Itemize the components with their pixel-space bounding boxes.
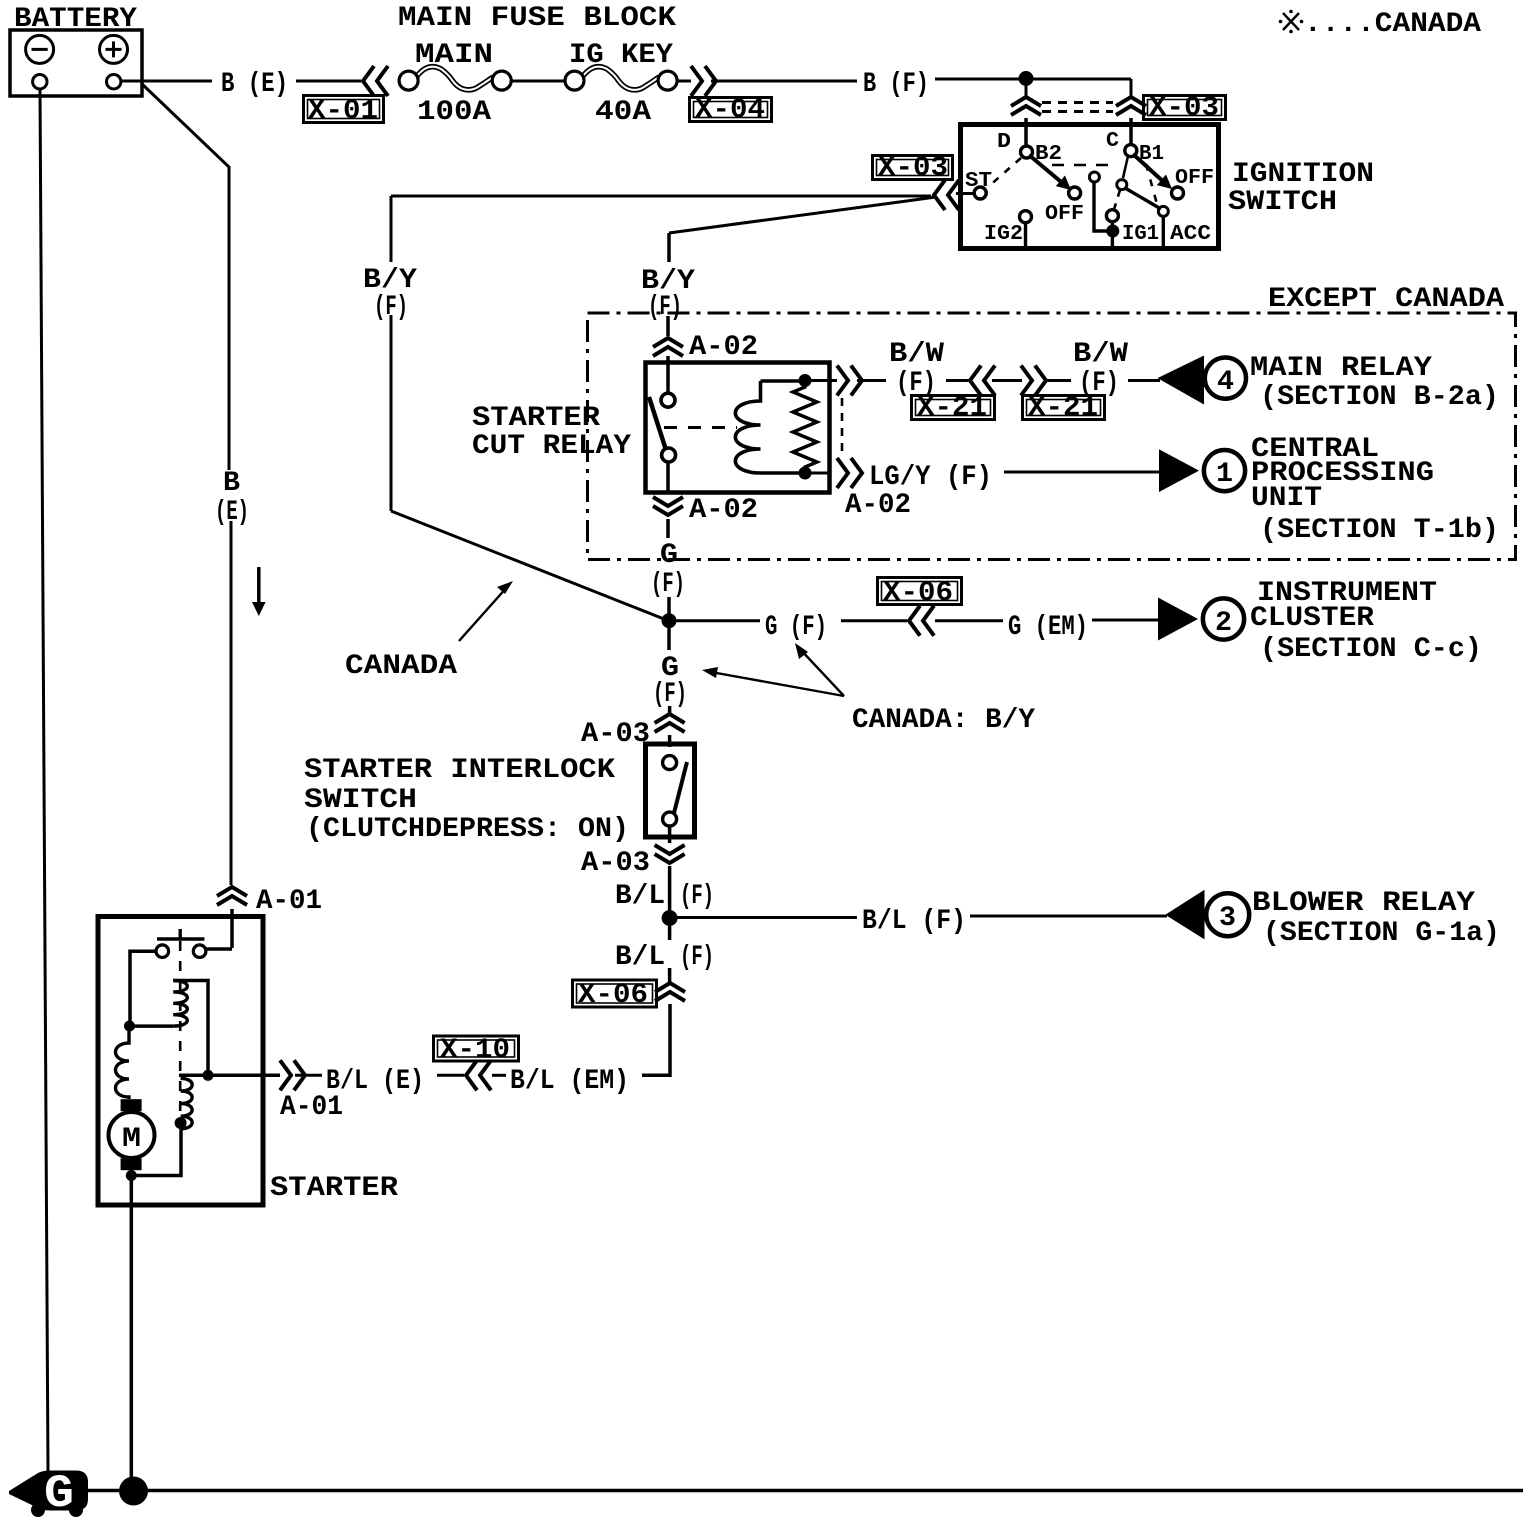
- wire left contact to field node: [130, 951, 156, 1021]
- starter solenoid contact right: [193, 945, 206, 958]
- starter plunger: [157, 929, 204, 939]
- label STARTER CUT RELAY: [472, 403, 631, 462]
- interlock switch blade: [674, 762, 687, 813]
- svg-text:IG2: IG2: [984, 223, 1023, 246]
- svg-text:A-03: A-03: [581, 719, 650, 750]
- starter solenoid contact left: [156, 945, 169, 958]
- ignition contact OFF (B1): [1172, 187, 1184, 199]
- svg-text:(F): (F): [680, 942, 714, 973]
- svg-text:B/W: B/W: [1073, 339, 1128, 370]
- svg-text:B/L (F): B/L (F): [862, 906, 966, 937]
- battery: [10, 30, 142, 96]
- ignition blade to ACC contact: [1125, 188, 1161, 209]
- svg-text:(F): (F): [680, 881, 714, 912]
- junction node IG1: [1106, 225, 1119, 238]
- svg-text:A-03: A-03: [581, 848, 650, 879]
- connector chevron X-03 on ST wire: [934, 180, 959, 210]
- wire hold-in coil top lead: [173, 981, 208, 1072]
- label B/L (F) below junction: [615, 942, 714, 973]
- junction node pull-in bottom: [175, 1117, 187, 1129]
- ignition pin IG1: [1106, 210, 1118, 222]
- arrow to instrument cluster: [1158, 598, 1198, 641]
- connector chevron X-01: [363, 66, 388, 96]
- wire relay B/W output: [811, 379, 886, 382]
- svg-text:EXCEPT CANADA: EXCEPT CANADA: [1268, 284, 1504, 315]
- arrow to main relay: [1158, 356, 1205, 405]
- arrow to blower relay: [1165, 890, 1204, 940]
- wire relay bottom to G: [668, 462, 669, 614]
- wire B/W between connectors: [946, 379, 1071, 382]
- junction node B/L: [662, 910, 678, 926]
- svg-text:MAIN FUSE BLOCK: MAIN FUSE BLOCK: [398, 3, 676, 34]
- bottom ground bus wire: [88, 1489, 1523, 1493]
- svg-text:(F): (F): [651, 569, 685, 600]
- svg-text:X-21: X-21: [917, 393, 987, 424]
- svg-text:(F): (F): [1079, 368, 1119, 399]
- svg-text:B: B: [223, 468, 240, 499]
- junction node motor bottom: [126, 1170, 137, 1181]
- svg-text:A-02: A-02: [845, 490, 911, 521]
- connector chevrons A-02 bottom: [653, 497, 683, 515]
- motor brush top: [121, 1099, 142, 1111]
- svg-text:UNIT: UNIT: [1251, 483, 1322, 514]
- ignition switch box: [961, 125, 1219, 249]
- wire hold-in coil bottom to node: [130, 1024, 173, 1028]
- svg-text:OFF: OFF: [1045, 203, 1084, 226]
- wire ST diagonal to B/Y right: [669, 197, 936, 233]
- dashed position line B1 to ACC: [1146, 164, 1157, 204]
- interlock contact top: [663, 756, 677, 770]
- svg-text:100A: 100A: [417, 97, 491, 128]
- svg-text:B/L (EM): B/L (EM): [510, 1066, 629, 1097]
- wire B/Y left vertical: [390, 196, 393, 511]
- svg-text:(E): (E): [215, 497, 249, 528]
- dashed position line B2 to ST: [988, 158, 1021, 187]
- label CANADA with arrow: [345, 581, 513, 682]
- svg-text:CANADA: CANADA: [345, 651, 457, 682]
- label B/W second: [1073, 339, 1128, 399]
- wire between fuses: [511, 80, 565, 83]
- svg-text:CUT RELAY: CUT RELAY: [472, 431, 631, 462]
- connector chevron X-06 on G wire: [909, 606, 934, 636]
- svg-text:A-01: A-01: [280, 1092, 343, 1123]
- connector chevron X-21 female: [970, 366, 995, 396]
- svg-text:G (F): G (F): [765, 612, 827, 643]
- svg-text:X-06: X-06: [883, 578, 953, 609]
- connector chevrons X-03 on B1 branch: [1116, 97, 1146, 115]
- junction node relay bottom: [799, 467, 812, 480]
- wire LG/Y to CPU: [1004, 471, 1160, 474]
- wire motor node to pull-in coil: [131, 1129, 181, 1176]
- ignition pin ST: [974, 187, 986, 199]
- relay contact bottom: [662, 448, 676, 462]
- dashed relay linkage: [664, 426, 737, 429]
- svg-text:CLUSTER: CLUSTER: [1250, 603, 1374, 634]
- junction node B(F): [1019, 71, 1034, 86]
- svg-text:CANADA: B/Y: CANADA: B/Y: [852, 705, 1035, 736]
- svg-text:(F): (F): [653, 679, 687, 710]
- svg-text:B (E): B (E): [221, 69, 288, 100]
- starter field coil: [116, 1031, 130, 1099]
- wire junction to interlock switch: [667, 627, 671, 747]
- label STARTER INTERLOCK SWITCH: [304, 755, 629, 845]
- relay coil top lead: [761, 379, 806, 383]
- connector chevrons X-06 bottom: [655, 983, 685, 1001]
- wire B/W to main relay: [1128, 379, 1160, 382]
- wire IG2 pin to box edge: [1024, 223, 1027, 246]
- svg-text:LG/Y (F): LG/Y (F): [869, 462, 992, 493]
- svg-text:SWITCH: SWITCH: [304, 785, 417, 816]
- label B/W first: [889, 339, 944, 399]
- svg-text:(CLUTCHDEPRESS: ON): (CLUTCHDEPRESS: ON): [306, 814, 629, 845]
- svg-text:MAIN RELAY: MAIN RELAY: [1250, 353, 1432, 384]
- svg-text:G (EM): G (EM): [1008, 612, 1088, 643]
- ground symbol G: [9, 1468, 88, 1518]
- interlock contact bottom: [663, 812, 677, 826]
- connector chevrons X-03 on B2 branch: [1011, 97, 1041, 115]
- svg-text:D: D: [997, 131, 1011, 154]
- wire into ST pin: [956, 192, 974, 195]
- connector chevron A-01 output: [280, 1060, 305, 1090]
- ignition rotor line B1 to first contact: [1123, 156, 1128, 178]
- label CENTRAL PROCESSING UNIT (SECTION T-1b): [1251, 434, 1499, 546]
- connector box X-10: [434, 1035, 519, 1066]
- arrow to central processing unit: [1159, 449, 1199, 492]
- destination circle 2: [1203, 598, 1244, 639]
- wire fuse block to B(F): [677, 80, 857, 83]
- label B/Y right: [641, 266, 695, 323]
- ignition contact circle 1: [1089, 172, 1099, 182]
- wire battery positive B(E) horizontal: [121, 80, 361, 83]
- svg-text:B/L: B/L: [615, 942, 665, 973]
- connector box X-01: [304, 96, 384, 128]
- destination circle 3: [1206, 893, 1249, 936]
- svg-text:4: 4: [1217, 367, 1234, 398]
- destination circle 4: [1205, 358, 1246, 399]
- svg-text:(SECTION B-2a): (SECTION B-2a): [1260, 382, 1499, 413]
- connector chevrons A-02 right bottom: [837, 458, 862, 488]
- ignition contact ACC: [1158, 206, 1168, 216]
- label B/Y left: [363, 265, 417, 323]
- ignition switch blade B1 with arrow: [1133, 154, 1172, 189]
- connector chevron X-21 male: [1021, 366, 1046, 396]
- connector chevrons A-02 right top: [837, 366, 862, 396]
- connector box X-21 left: [912, 393, 995, 424]
- svg-text:BLOWER RELAY: BLOWER RELAY: [1252, 888, 1475, 919]
- except-canada dash-dot border: [588, 313, 1516, 560]
- relay coil bottom lead: [761, 471, 806, 475]
- connector box X-03 top: [1144, 93, 1226, 124]
- connector box X-04: [690, 95, 772, 126]
- svg-text:X-06: X-06: [578, 980, 648, 1011]
- svg-text:OFF: OFF: [1175, 167, 1214, 190]
- svg-text:B (F): B (F): [863, 69, 929, 100]
- wire B/Y left top horizontal to ST: [391, 195, 931, 198]
- svg-text:X-04: X-04: [695, 95, 765, 126]
- label CANADA: B/Y with arrows: [702, 643, 1035, 736]
- reference mark CANADA note: [1279, 9, 1482, 40]
- dashed connector boundary: [841, 398, 844, 456]
- wire B/L (EM) segment: [492, 1074, 506, 1077]
- connector box X-21 right: [1023, 393, 1105, 424]
- current direction arrow: [252, 567, 266, 616]
- svg-text:(SECTION T-1b): (SECTION T-1b): [1260, 515, 1499, 546]
- starter box: [98, 917, 263, 1206]
- dashed position line to IG1: [1114, 190, 1121, 211]
- starter pull-in coil: [181, 1078, 193, 1128]
- junction node ground bus: [119, 1477, 148, 1506]
- svg-text:X-01: X-01: [308, 96, 378, 127]
- svg-text:C: C: [1106, 130, 1119, 153]
- wire battery negative to ground: [40, 89, 48, 1471]
- ignition pin IG2: [1020, 211, 1032, 223]
- label MAIN RELAY (SECTION B-2a): [1250, 353, 1499, 413]
- wire CANADA diagonal: [391, 511, 669, 621]
- svg-text:(F): (F): [648, 292, 682, 323]
- svg-text:A-02: A-02: [689, 332, 758, 363]
- wire IG1 pin to box edge: [1111, 222, 1114, 246]
- wire B/L (E) segment: [295, 1074, 464, 1077]
- motor M: [109, 1112, 155, 1158]
- wire chevrons to ignition pins: [1026, 118, 1131, 146]
- dashed position line mid: [1052, 164, 1116, 167]
- relay contact top: [661, 393, 675, 407]
- svg-text:STARTER: STARTER: [472, 403, 600, 434]
- svg-text:ACC: ACC: [1170, 223, 1211, 246]
- svg-text:G: G: [660, 540, 678, 571]
- wire B/Y right vertical: [668, 233, 669, 394]
- label B/L (F) above junction: [615, 881, 714, 912]
- ignition contact OFF (B2): [1069, 187, 1081, 199]
- junction node relay top: [799, 374, 812, 387]
- wire relay LG/Y output: [811, 472, 830, 475]
- wire contact1 to IG1 node: [1094, 182, 1107, 231]
- svg-text:1: 1: [1216, 459, 1233, 490]
- svg-text:A-01: A-01: [256, 886, 322, 917]
- connector box X-03 left: [873, 153, 953, 184]
- relay switch blade: [649, 397, 666, 450]
- motor brush bottom: [121, 1158, 142, 1170]
- starter hold-in coil: [173, 981, 187, 1027]
- svg-text:M: M: [122, 1124, 141, 1155]
- connector chevron X-04: [691, 66, 716, 96]
- relay coil: [735, 381, 760, 473]
- ignition pin D/B2: [1021, 146, 1033, 158]
- label BLOWER RELAY (SECTION G-1a): [1252, 888, 1500, 949]
- wire starter output B/L (E): [179, 1074, 280, 1078]
- label IGNITION SWITCH: [1228, 159, 1374, 218]
- ignition switch blade B2 with arrow: [1029, 155, 1071, 190]
- connector chevrons A-02 top: [653, 338, 683, 356]
- svg-text:(SECTION C-c): (SECTION C-c): [1260, 634, 1482, 665]
- svg-text:X-03: X-03: [1149, 93, 1219, 124]
- wire B/L (F) to blower relay: [677, 916, 1167, 918]
- label INSTRUMENT CLUSTER (SECTION C-c): [1250, 578, 1482, 665]
- connector chevron X-10: [466, 1060, 491, 1090]
- svg-text:A-02: A-02: [689, 495, 758, 526]
- dashed connector link X-03: [1042, 103, 1113, 112]
- svg-text:X-10: X-10: [440, 1035, 510, 1066]
- svg-text:X-03: X-03: [878, 153, 948, 184]
- wire motor to ground: [130, 1170, 134, 1480]
- svg-text:B/L: B/L: [615, 881, 665, 912]
- junction node starter output: [203, 1070, 214, 1081]
- svg-text:B/W: B/W: [889, 339, 944, 370]
- svg-text:STARTER INTERLOCK: STARTER INTERLOCK: [304, 755, 615, 786]
- svg-text:IG1: IG1: [1122, 223, 1159, 246]
- dashed solenoid linkage: [179, 941, 182, 1120]
- label G (F) below junction: [653, 653, 687, 710]
- destination circle 1: [1204, 450, 1245, 491]
- svg-text:40A: 40A: [595, 97, 651, 128]
- svg-text:IG KEY: IG KEY: [569, 40, 673, 71]
- junction node G(F): [662, 613, 677, 628]
- wire battery diagonal to starter branch: [142, 84, 231, 885]
- svg-text:IGNITION: IGNITION: [1232, 159, 1374, 190]
- wire G(F) to instrument cluster: [676, 619, 1160, 623]
- svg-text:ST: ST: [965, 170, 992, 193]
- fuse MAIN 100A: [399, 67, 511, 90]
- connector box X-06 top: [878, 578, 962, 610]
- svg-text:3: 3: [1219, 903, 1236, 934]
- connector chevrons A-03 bottom: [655, 845, 685, 863]
- svg-text:G: G: [44, 1468, 74, 1518]
- starter cut relay box: [646, 363, 830, 493]
- ignition pin C/B1: [1125, 145, 1137, 157]
- junction node field: [124, 1021, 135, 1032]
- ignition contact circle 2: [1117, 180, 1127, 190]
- wire interlock to junction: [668, 826, 672, 910]
- svg-text:(SECTION G-1a): (SECTION G-1a): [1263, 918, 1500, 949]
- svg-text:2: 2: [1215, 608, 1232, 639]
- svg-text:....CANADA: ....CANADA: [1304, 9, 1481, 40]
- relay resistor: [793, 380, 817, 473]
- wire A-01 into starter: [206, 909, 232, 949]
- svg-text:STARTER: STARTER: [270, 1173, 398, 1204]
- wire B(F) to ignition switch: [935, 79, 1131, 96]
- starter interlock switch box: [646, 744, 695, 837]
- label G (F) above junction: [651, 540, 685, 600]
- connector chevrons A-01 top: [217, 887, 247, 905]
- fuse IG KEY 40A: [565, 67, 677, 90]
- wire junction down to X-06: [642, 926, 670, 1075]
- connector box X-06 bottom: [573, 980, 657, 1011]
- connector chevrons A-03 top: [655, 714, 685, 732]
- wire ACC to box edge: [1162, 216, 1165, 246]
- svg-text:SWITCH: SWITCH: [1228, 187, 1337, 218]
